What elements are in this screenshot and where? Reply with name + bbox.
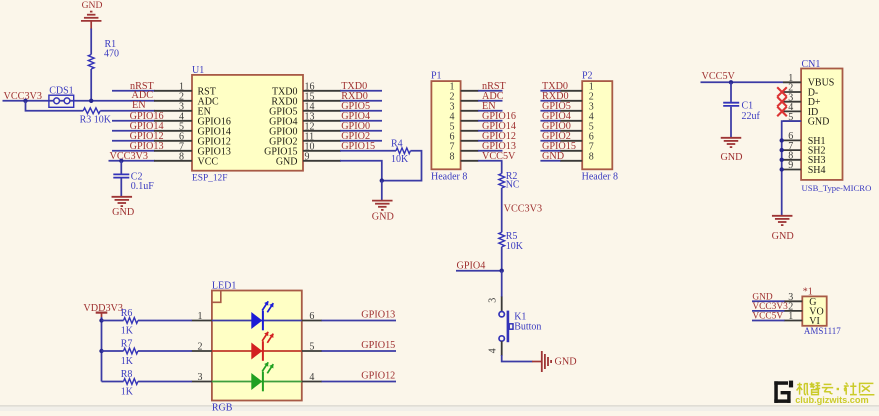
regulator U AMS1117 (*1) — [802, 286, 841, 336]
svg-text:AMS1117: AMS1117 — [804, 326, 841, 336]
svg-text:3: 3 — [198, 372, 203, 383]
wire GPIO4 from P2 pin 4 — [540, 120, 560, 122]
resistor R1 470 — [88, 39, 119, 69]
LED1 left pin numbers 1,2,3 — [198, 311, 203, 383]
wire GPIO12 from LED1 — [322, 381, 397, 383]
wire GND node to ground symbol — [381, 181, 383, 201]
wire R4 down to GND node — [382, 151, 422, 181]
U1 left pin numbers 1-8 — [179, 81, 184, 162]
wire VCC3V3 to U1 pin 8 — [109, 160, 156, 162]
wire VDD3V3 to R6 — [102, 320, 124, 322]
wire GND from P2 pin 8 — [540, 160, 560, 162]
wire GPIO13 from P1 pin 7 — [478, 150, 503, 152]
junction SH1 — [780, 138, 784, 142]
capacitor C1 22uf — [723, 82, 760, 122]
wire GPIO0 from U1 pin 12 — [340, 130, 382, 132]
wire GND stem to R1 — [90, 29, 92, 55]
junction SH4 — [780, 167, 784, 171]
svg-text:Header 8: Header 8 — [582, 172, 618, 183]
U1 right pin numbers 16-9 — [305, 81, 315, 162]
svg-text:GPIO13: GPIO13 — [361, 310, 395, 321]
CN1 pin stubs — [782, 82, 801, 169]
wire VCC5V to CN1 pin 1 — [701, 81, 784, 83]
svg-text:ESP_12F: ESP_12F — [192, 173, 227, 183]
svg-text:VI: VI — [809, 316, 820, 327]
wire VCC5V from P1 pin 8 — [478, 160, 503, 162]
P2 pin numbers 1-8 — [589, 82, 594, 163]
wire C2 to ground — [120, 178, 122, 197]
svg-text:5: 5 — [309, 342, 314, 353]
svg-text:U1: U1 — [192, 65, 204, 76]
wire GPIO15 from U1 pin 10 — [340, 150, 396, 152]
no-connect X on CN1 pin 3 D+ — [777, 97, 787, 107]
junction SH3 — [780, 158, 784, 162]
P1 pin numbers 1-8 — [450, 82, 455, 163]
ground below CN1 — [772, 216, 794, 242]
svg-text:4: 4 — [488, 348, 499, 353]
connector P1 Header 8 — [431, 71, 467, 183]
wire GPIO2 from P2 pin 6 — [540, 140, 560, 142]
photocell connector CDS1 — [49, 86, 74, 108]
LED1 left pin stubs — [192, 321, 212, 382]
svg-text:9: 9 — [305, 151, 310, 162]
LED blue inside LED1 — [212, 301, 302, 330]
wire VCC5V down to R2 — [501, 161, 503, 174]
U1 right pin stubs — [303, 91, 341, 161]
CN1 pin numbers 1-9 — [788, 73, 793, 171]
svg-text:GND: GND — [720, 152, 742, 163]
junction VDD3V3 row 1 — [99, 318, 103, 322]
wire GPIO15 from LED1 — [322, 350, 397, 352]
svg-text:3: 3 — [488, 298, 499, 303]
wire GPIO5 from U1 pin 14 — [340, 110, 382, 112]
junction GPIO4 node — [500, 269, 504, 273]
ground right of K1 (rotated) — [532, 351, 577, 372]
junction VCC3V3 branch — [23, 99, 27, 103]
svg-text:*1: *1 — [803, 286, 813, 297]
wire GND to AMS1117 — [752, 300, 785, 302]
wire GPIO12 from P1 pin 6 — [478, 140, 503, 142]
svg-text:10K: 10K — [391, 154, 409, 165]
wire GPIO12 to U1 pin 6 — [112, 140, 155, 142]
power bar VDD3V3 — [96, 313, 108, 318]
svg-text:1K: 1K — [121, 326, 134, 337]
page bottom divider strip — [0, 405, 879, 407]
junction SH2 — [780, 148, 784, 152]
logo chinese text ji-zhi-yun dot she-qu (yellow strokes) — [797, 382, 875, 394]
svg-text:GPIO15: GPIO15 — [361, 340, 395, 351]
wire VDD3V3 to R8 — [102, 381, 124, 383]
wire GPIO14 to U1 pin 5 — [112, 130, 155, 132]
svg-text:VCC: VCC — [198, 156, 219, 167]
wire R6 to LED1 pin 1 — [138, 320, 192, 322]
svg-text:8: 8 — [589, 152, 594, 163]
resistor R4 10K — [391, 138, 410, 164]
wire TXD0 from U1 pin 16 — [340, 90, 382, 92]
svg-text:R4: R4 — [391, 138, 403, 149]
svg-text:1: 1 — [198, 311, 203, 322]
svg-text:8: 8 — [450, 152, 455, 163]
LED red inside LED1 — [212, 332, 302, 361]
svg-text:0.1uF: 0.1uF — [131, 181, 155, 192]
svg-text:LED1: LED1 — [212, 280, 236, 291]
wire VCC3V3 to AMS1117 — [752, 310, 785, 312]
svg-text:10K: 10K — [506, 241, 524, 252]
wire GPIO13 from LED1 — [322, 320, 397, 322]
ground GND top (above R1) — [81, 0, 103, 29]
svg-text:22uf: 22uf — [742, 111, 761, 122]
wire GPIO4 from U1 pin 13 — [340, 120, 382, 122]
K1 pin 3 stub — [501, 297, 503, 312]
svg-text:GND: GND — [82, 0, 103, 11]
wire nRST from P1 pin 1 — [478, 90, 503, 92]
svg-text:VCC5V: VCC5V — [702, 71, 736, 82]
svg-text:GND: GND — [555, 357, 577, 368]
svg-text:6: 6 — [309, 311, 314, 322]
wire nRST to U1 pin 1 — [112, 90, 155, 92]
wire ADC from P1 pin 2 — [478, 100, 503, 102]
svg-text:P1: P1 — [431, 71, 442, 82]
push button K1 — [499, 311, 541, 343]
junction GND node below R4 — [380, 178, 384, 182]
svg-text:Button: Button — [514, 321, 541, 332]
resistor R6 1K — [121, 308, 138, 337]
junction VCC5V / C1 — [729, 80, 733, 84]
svg-text:GPIO12: GPIO12 — [361, 371, 395, 382]
AMS1117 pin numbers 3,2,1 — [788, 292, 793, 322]
wire GPIO14 from P1 pin 5 — [478, 130, 503, 132]
wire R1 to ADC node — [90, 69, 92, 101]
capacitor C2 0.1uF — [113, 161, 154, 192]
LED1 right pin stubs — [302, 321, 322, 382]
wire GPIO0 from P2 pin 5 — [540, 130, 560, 132]
LED green inside LED1 — [212, 362, 302, 391]
resistor R5 10K — [499, 231, 524, 252]
wire R8 to LED1 pin 3 — [138, 381, 192, 383]
svg-text:GND: GND — [372, 211, 394, 222]
AMS1117 pin stubs — [784, 301, 803, 320]
svg-text:GND: GND — [772, 231, 794, 242]
wire RXD0 from U1 pin 15 — [340, 100, 382, 102]
svg-text:GND: GND — [276, 156, 298, 167]
svg-text:R8: R8 — [121, 369, 133, 380]
wire VCC3V3 to CDS1 to U1 pin 2 (ADC net) — [3, 100, 156, 102]
junction VCC3V3 / C2 — [119, 159, 123, 163]
svg-text:R3 10K: R3 10K — [80, 114, 112, 125]
wire CN1 pin 5 / shield pins to ground — [782, 121, 801, 216]
resistor R8 1K — [121, 369, 138, 398]
svg-text:1K: 1K — [121, 356, 134, 367]
wire RXD0 from P2 pin 2 — [540, 100, 560, 102]
resistor R3 10K — [80, 108, 112, 125]
LED1 right pin numbers 6,5,4 — [309, 311, 314, 383]
wire GPIO4 node down to K1 pin 3 — [501, 271, 503, 297]
svg-text:EN: EN — [132, 100, 146, 111]
svg-text:VCC3V3: VCC3V3 — [504, 203, 542, 214]
ground below R4/U1 pin 9 — [372, 201, 394, 223]
P2 pin stubs — [560, 91, 582, 161]
wire C1 to ground — [730, 107, 732, 138]
no-connect X on CN1 pin 2 D- — [777, 87, 787, 97]
resistor R7 1K — [121, 338, 138, 367]
svg-text:RGB: RGB — [212, 402, 233, 411]
wire GPIO2 from U1 pin 11 — [340, 140, 382, 142]
junction ADC node (R1/CDS1) — [89, 99, 93, 103]
svg-text:NC: NC — [506, 180, 520, 191]
P1 pin stubs — [461, 91, 479, 161]
svg-text:Header 8: Header 8 — [431, 172, 467, 183]
LED module LED1 RGB — [212, 280, 302, 413]
connector P2 Header 8 — [582, 71, 618, 183]
connector CN1 USB_Type-MICRO — [801, 59, 871, 193]
svg-text:4: 4 — [309, 372, 314, 383]
wire GPIO4 label to node — [456, 270, 502, 272]
svg-text:SH4: SH4 — [808, 165, 826, 176]
U1 left pin stubs — [154, 91, 192, 161]
wire EN from P1 pin 3 — [478, 110, 503, 112]
logo G mark (black) — [774, 381, 793, 403]
wire U1 pin 9 to GND node — [340, 161, 382, 181]
wire TXD0 from P2 pin 1 — [540, 90, 560, 92]
svg-text:2: 2 — [198, 342, 203, 353]
wire K1 pin 4 to ground — [502, 355, 533, 362]
svg-text:470: 470 — [104, 49, 119, 60]
resistor R2 NC — [499, 171, 520, 191]
wire VCC5V to AMS1117 — [752, 320, 785, 322]
wire VCC3V3 branch down to R3 — [26, 101, 84, 111]
K1 pin 4 stub — [501, 341, 503, 356]
wire GPIO16 to U1 pin 4 — [112, 120, 155, 122]
wire GPIO5 from P2 pin 3 — [540, 110, 560, 112]
svg-text:P2: P2 — [582, 71, 593, 82]
IC U1 ESP_12F — [192, 65, 303, 184]
ground below C2 — [112, 197, 135, 218]
wire GPIO13 to U1 pin 7 — [112, 150, 155, 152]
no-connect X on CN1 pin 4 ID — [777, 107, 787, 117]
wire R2 to R5 — [501, 188, 503, 232]
wire GPIO15 from P2 pin 7 — [540, 150, 560, 152]
svg-text:1K: 1K — [121, 387, 134, 398]
wire R3 to U1 pin 3 (EN) — [100, 110, 155, 112]
svg-text:GND: GND — [112, 207, 134, 218]
ground below C1 — [720, 138, 742, 163]
svg-text:CN1: CN1 — [802, 59, 821, 70]
svg-text:9: 9 — [788, 160, 793, 171]
svg-text:R6: R6 — [121, 308, 133, 319]
svg-text:USB_Type-MICRO: USB_Type-MICRO — [802, 183, 872, 193]
svg-text:R7: R7 — [121, 338, 133, 349]
svg-text:GND: GND — [808, 117, 830, 128]
wire VDD3V3 to R7 — [102, 350, 124, 352]
wire VDD3V3 down the LED rows — [101, 317, 103, 382]
wire R7 to LED1 pin 2 — [138, 350, 192, 352]
junction VDD3V3 row 2 — [99, 349, 103, 353]
wire R5 to GPIO4 node — [501, 247, 503, 271]
svg-text:8: 8 — [179, 151, 184, 162]
wire GPIO16 from P1 pin 4 — [478, 120, 503, 122]
svg-text:club.gizwits.com: club.gizwits.com — [795, 395, 869, 405]
